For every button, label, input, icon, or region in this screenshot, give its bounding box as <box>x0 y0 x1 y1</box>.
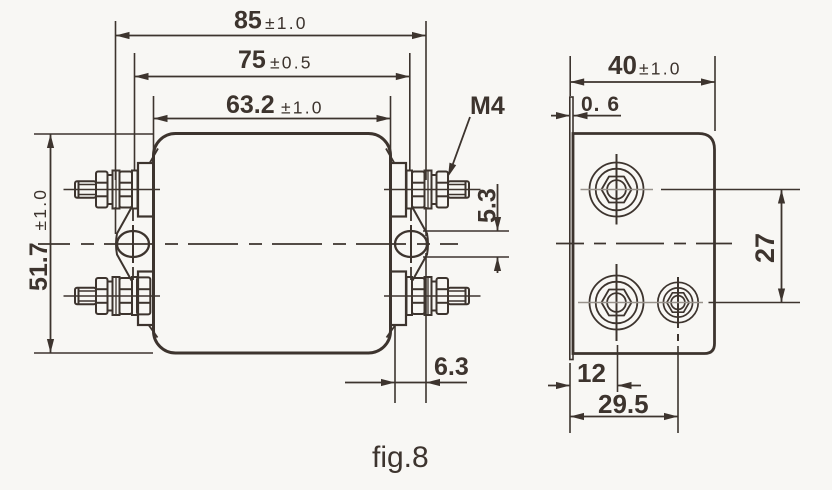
mounting tab right <box>413 208 429 281</box>
small hole (stud end view) <box>658 282 698 322</box>
dim 27 line <box>781 190 783 303</box>
svg-text:±0.5: ±0.5 <box>270 53 313 73</box>
dim 12 with outside arrows <box>548 385 570 387</box>
bushing bottom-left <box>138 272 154 326</box>
dim 6.3 line with outside arrows <box>345 382 467 384</box>
svg-text:±1.0: ±1.0 <box>281 98 324 118</box>
mounting slot right <box>395 231 427 257</box>
filter body (front view) <box>154 134 391 354</box>
svg-text:5.3: 5.3 <box>474 188 502 223</box>
dim 5.3 line with outside arrows <box>497 184 499 231</box>
bushing top-right <box>391 163 407 217</box>
svg-text:75: 75 <box>238 46 266 74</box>
dim 51.7 line <box>50 134 52 353</box>
dim 27 extension line <box>661 189 800 191</box>
svg-text:0. 6: 0. 6 <box>581 93 620 116</box>
svg-text:29.5: 29.5 <box>598 389 649 419</box>
terminal stud bottom-right <box>384 277 481 315</box>
dim 5.3 extension lines <box>423 230 509 232</box>
dim 29.5 extension lines <box>569 363 571 433</box>
dim 0.6 with outside arrows <box>551 115 570 117</box>
side view center line <box>556 243 732 245</box>
dim 75 line <box>135 76 410 78</box>
dim 12 extension line <box>617 345 619 392</box>
dim 63.2 extension lines <box>153 96 155 161</box>
svg-text:6.3: 6.3 <box>434 353 469 381</box>
dim 63.2 line <box>154 118 391 120</box>
hole bottom (stud end view) <box>590 276 644 330</box>
center line horizontal (front view) <box>38 243 458 245</box>
hole top (stud end view) <box>590 163 644 217</box>
svg-text:27: 27 <box>750 233 780 263</box>
dim 85 line <box>116 35 427 37</box>
side view flange plate 0.6 <box>570 97 573 360</box>
svg-text:40: 40 <box>608 50 637 80</box>
svg-text:51.7: 51.7 <box>25 242 53 291</box>
mounting tab left <box>116 208 132 281</box>
dim 51.7 extension lines <box>34 133 153 135</box>
terminal stud bottom-left <box>64 277 161 315</box>
dim 6.3 extension line <box>394 326 396 403</box>
bushing bottom-right <box>391 272 407 326</box>
svg-text:12: 12 <box>577 358 606 388</box>
bushing top-left <box>138 163 154 217</box>
tab corner diagonals <box>150 149 158 163</box>
dim 75 extension lines <box>134 53 136 171</box>
svg-text:±1.0: ±1.0 <box>639 59 682 79</box>
svg-text:±1.0: ±1.0 <box>30 188 50 231</box>
svg-text:±1.0: ±1.0 <box>265 13 308 33</box>
dim 29.5 line <box>570 416 678 418</box>
side view body <box>573 134 715 354</box>
svg-text:M4: M4 <box>470 92 505 120</box>
svg-text:85: 85 <box>234 7 262 35</box>
dim 40 line <box>570 81 715 83</box>
terminal stud top-left <box>64 171 161 209</box>
svg-text:fig.8: fig.8 <box>372 441 429 474</box>
common horizontal center line through bottom holes <box>578 302 703 304</box>
mounting slot left <box>117 231 149 257</box>
dim 40 extension lines <box>569 56 571 96</box>
dim 85 extension lines <box>115 21 117 180</box>
terminal stud top-right <box>384 171 481 209</box>
svg-text:63.2: 63.2 <box>226 91 275 119</box>
